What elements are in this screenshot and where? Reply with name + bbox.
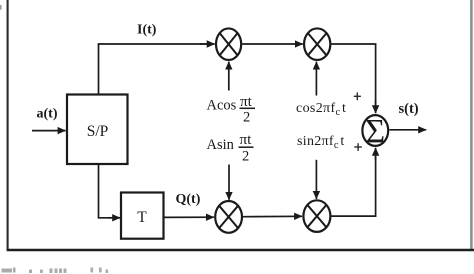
block S/P bbox=[67, 95, 128, 165]
multiplier M1 bbox=[216, 28, 241, 60]
wire M1 to M2 bbox=[242, 43, 303, 45]
wire M2 to summer (right then down) bbox=[331, 44, 375, 106]
caption fragment (cut off at bottom) bbox=[2, 268, 109, 274]
svg-text:Σ: Σ bbox=[365, 113, 385, 150]
frame right gray border bbox=[470, 0, 473, 250]
svg-text:sin2πfc t: sin2πfc t bbox=[297, 134, 345, 151]
plus sign bottom input bbox=[354, 146, 362, 148]
svg-text:2: 2 bbox=[243, 110, 250, 126]
svg-text:T: T bbox=[137, 209, 147, 226]
edge artifact mark bbox=[0, 5, 2, 10]
wire M3 to M4 bbox=[243, 215, 302, 217]
summer SIGMA bbox=[362, 113, 388, 150]
wire S/P bottom to T bbox=[99, 164, 113, 218]
wire M4 to summer (right then up) bbox=[332, 154, 376, 216]
wire sin feed down into M4 bbox=[315, 160, 317, 199]
wire S/P top to I line corner bbox=[99, 44, 207, 95]
svg-text:2: 2 bbox=[242, 149, 249, 165]
frame bottom border bbox=[7, 249, 474, 251]
multiplier M2 bbox=[304, 28, 330, 60]
svg-text:Asin: Asin bbox=[207, 137, 235, 153]
svg-text:I(t): I(t) bbox=[137, 23, 157, 38]
label Asin pi t / 2 bbox=[207, 131, 254, 164]
wire a(t) input arrow bbox=[32, 130, 66, 132]
wire arrow into multiplier M1 bbox=[200, 43, 215, 45]
block T bbox=[121, 193, 164, 239]
plus sign top input bbox=[354, 95, 361, 97]
wire Asin feed down into M3 bbox=[228, 165, 230, 200]
frame left border bbox=[7, 0, 9, 250]
multiplier M3 bbox=[215, 201, 242, 233]
svg-text:Acos: Acos bbox=[207, 98, 237, 114]
svg-text:cos2πfc t: cos2πfc t bbox=[296, 101, 346, 118]
multiplier M4 bbox=[303, 200, 330, 232]
wire T to M3 bbox=[164, 216, 215, 218]
svg-text:S/P: S/P bbox=[87, 123, 109, 140]
label Acos pi t / 2 bbox=[207, 93, 256, 126]
wire cos feed up into M2 bbox=[315, 62, 317, 96]
svg-text:s(t): s(t) bbox=[399, 101, 419, 117]
svg-text:πt: πt bbox=[240, 131, 253, 148]
svg-text:Q(t): Q(t) bbox=[176, 192, 201, 207]
svg-text:a(t): a(t) bbox=[37, 106, 58, 121]
wire Acos feed up into M1 bbox=[228, 62, 230, 91]
svg-text:πt: πt bbox=[240, 93, 253, 110]
wire summer output s(t) bbox=[389, 129, 426, 131]
